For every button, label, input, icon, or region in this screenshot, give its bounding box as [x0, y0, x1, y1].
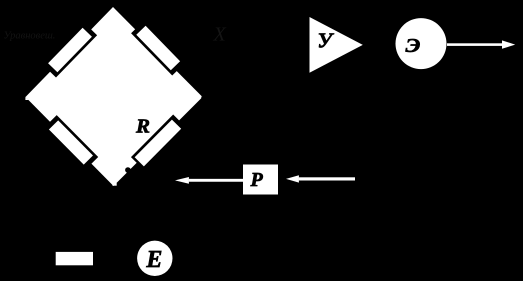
svg-text:Уравновеш.: Уравновеш. — [4, 30, 56, 41]
svg-text:Р: Р — [250, 169, 264, 191]
svg-text:У: У — [318, 29, 335, 53]
svg-text:R: R — [135, 116, 150, 138]
svg-text:Э: Э — [406, 35, 421, 57]
svg-text:E: E — [145, 247, 162, 273]
svg-text:Х: Х — [213, 24, 227, 46]
